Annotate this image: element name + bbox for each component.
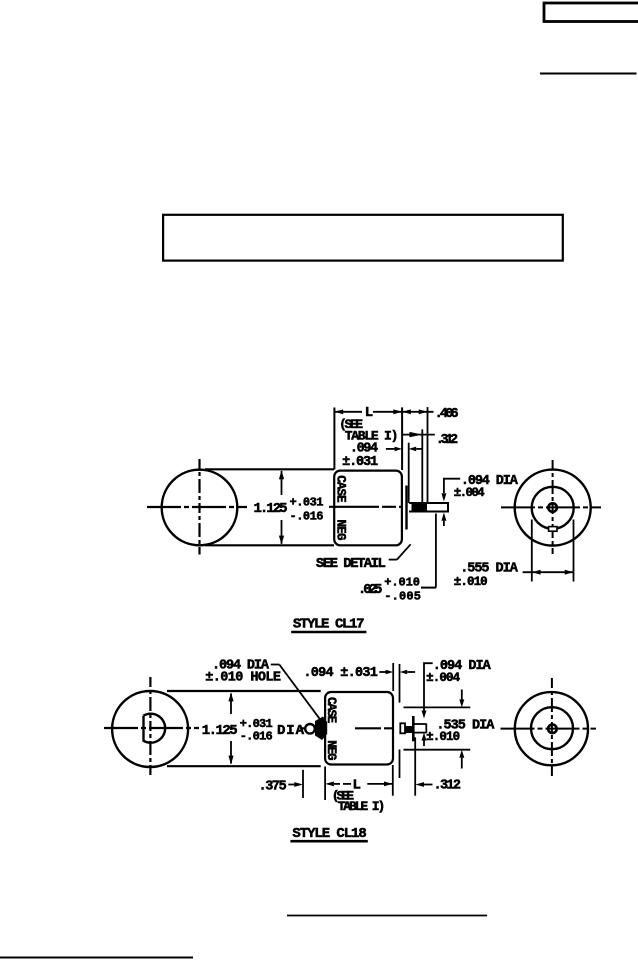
svg-text:±.004: ±.004 (454, 486, 485, 500)
svg-text:±.010 HOLE: ±.010 HOLE (205, 671, 281, 686)
svg-text:1.125: 1.125 (202, 723, 238, 739)
svg-text:.312: .312 (436, 433, 458, 448)
svg-text:+.031: +.031 (290, 496, 324, 510)
svg-text:NEG: NEG (324, 740, 338, 760)
svg-text:.094 ±.031: .094 ±.031 (303, 666, 378, 681)
svg-text:±.010: ±.010 (454, 575, 488, 589)
svg-text:.375: .375 (259, 780, 287, 795)
svg-text:SEE DETAIL: SEE DETAIL (316, 556, 386, 572)
svg-text:±.031: ±.031 (342, 455, 378, 470)
svg-text:DIA: DIA (277, 723, 305, 739)
svg-text:NEG: NEG (333, 520, 347, 541)
svg-text:.025: .025 (358, 582, 383, 598)
svg-text:STYLE CL17: STYLE CL17 (293, 617, 365, 633)
svg-text:+.010: +.010 (384, 576, 420, 590)
svg-text:±.004: ±.004 (426, 671, 460, 685)
svg-text:L: L (365, 405, 373, 421)
svg-text:1.125: 1.125 (254, 501, 288, 517)
svg-text:-.016: -.016 (290, 510, 324, 524)
svg-text:.406: .406 (435, 407, 459, 422)
svg-text:TABLE I): TABLE I) (338, 799, 386, 814)
svg-text:-.005: -.005 (384, 589, 421, 603)
svg-text:.312: .312 (434, 779, 462, 794)
svg-text:STYLE CL18: STYLE CL18 (292, 826, 366, 842)
svg-text:CASE: CASE (324, 697, 338, 723)
svg-text:CASE: CASE (333, 475, 347, 503)
svg-text:-.016: -.016 (240, 730, 273, 744)
svg-text:±.010: ±.010 (426, 730, 460, 744)
